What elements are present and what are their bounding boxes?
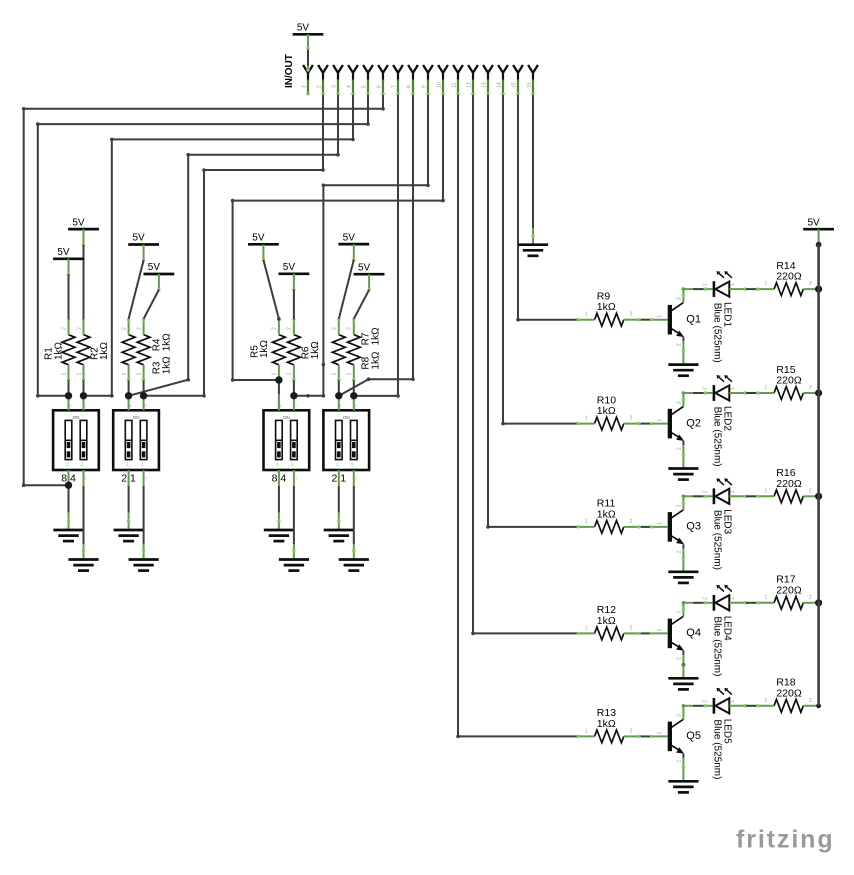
svg-text:2: 2 [703,387,709,390]
svg-text:2: 2 [809,281,812,287]
svg-text:Q3: Q3 [686,521,701,533]
svg-text:2: 2 [287,327,293,330]
svg-text:3: 3 [677,504,683,507]
svg-text:5V: 5V [807,217,820,228]
svg-text:5V: 5V [132,233,145,244]
svg-text:1: 1 [76,373,82,376]
svg-text:2: 2 [76,327,82,330]
svg-text:1: 1 [765,595,768,601]
svg-text:5V: 5V [283,262,296,273]
svg-text:220Ω: 220Ω [776,375,802,387]
svg-text:3: 3 [677,714,683,717]
svg-text:6: 6 [376,85,382,88]
svg-text:5V: 5V [252,233,265,244]
svg-text:1: 1 [730,700,736,703]
svg-text:1: 1 [765,488,768,494]
svg-text:2: 2 [121,327,127,330]
svg-text:3: 3 [331,85,337,88]
svg-text:Blue (525nm): Blue (525nm) [712,510,723,570]
svg-text:Blue (525nm): Blue (525nm) [712,719,723,779]
svg-text:220Ω: 220Ω [776,271,802,283]
svg-text:2: 2 [677,760,683,763]
svg-text:2: 2 [316,85,322,88]
svg-text:1: 1 [121,373,127,376]
svg-text:2: 2 [353,477,358,480]
svg-text:1: 1 [657,731,663,734]
svg-text:5V: 5V [148,262,161,273]
svg-text:1: 1 [61,373,67,376]
svg-text:2: 2 [677,447,683,450]
svg-text:2: 2 [809,698,812,704]
svg-text:2: 2 [142,477,147,480]
svg-text:1kΩ: 1kΩ [597,508,616,520]
svg-text:2: 2 [332,327,338,330]
svg-text:1: 1 [585,625,588,631]
svg-text:1: 1 [585,728,588,734]
svg-text:1: 1 [585,312,588,318]
svg-text:1: 1 [730,597,736,600]
svg-text:2: 2 [703,283,709,286]
svg-text:5V: 5V [72,217,85,228]
svg-text:1kΩ: 1kΩ [597,405,616,417]
svg-text:1: 1 [332,373,338,376]
svg-text:220Ω: 220Ω [776,478,802,490]
svg-text:2: 2 [677,343,683,346]
svg-text:Q2: Q2 [686,417,701,429]
svg-text:1: 1 [657,419,663,422]
svg-text:5V: 5V [57,247,70,258]
svg-text:2: 2 [809,488,812,494]
svg-text:2: 2 [272,327,278,330]
svg-text:9: 9 [421,85,427,88]
svg-text:11: 11 [451,83,457,88]
svg-text:4: 4 [346,85,352,88]
svg-text:ON: ON [73,415,80,420]
svg-text:8 4: 8 4 [272,472,287,484]
svg-text:1kΩ: 1kΩ [597,718,616,730]
svg-text:2: 2 [809,385,812,391]
svg-text:Q1: Q1 [686,314,701,326]
svg-text:5V: 5V [297,23,310,34]
svg-text:1: 1 [730,387,736,390]
svg-text:ON: ON [283,415,290,420]
svg-text:1: 1 [272,373,278,376]
svg-text:2: 2 [630,416,633,422]
svg-text:2: 2 [630,728,633,734]
svg-text:16: 16 [526,82,532,88]
svg-text:13: 13 [481,82,487,88]
svg-text:7: 7 [391,85,397,88]
svg-text:1: 1 [765,281,768,287]
svg-text:2: 2 [677,657,683,660]
svg-text:2: 2 [809,595,812,601]
svg-text:2: 2 [703,490,709,493]
svg-text:1: 1 [585,519,588,525]
svg-text:8: 8 [406,85,412,88]
svg-text:IN/OUT: IN/OUT [284,54,295,88]
svg-text:3: 3 [677,611,683,614]
svg-text:1: 1 [657,522,663,525]
svg-text:14: 14 [496,82,502,88]
svg-text:2: 2 [703,597,709,600]
svg-text:Blue (525nm): Blue (525nm) [712,616,723,676]
svg-text:2: 2 [630,312,633,318]
svg-text:1: 1 [585,416,588,422]
svg-text:2: 2 [61,327,67,330]
svg-text:fritzing: fritzing [736,826,835,854]
svg-text:5: 5 [361,85,367,88]
svg-text:220Ω: 220Ω [776,687,802,699]
svg-text:1kΩ: 1kΩ [597,615,616,627]
svg-text:2: 2 [677,550,683,553]
svg-text:5V: 5V [343,232,356,243]
svg-text:1: 1 [657,315,663,318]
svg-text:3: 3 [677,297,683,300]
svg-text:Blue (525nm): Blue (525nm) [712,303,723,363]
svg-text:2: 2 [630,625,633,631]
svg-text:2: 2 [630,519,633,525]
svg-text:5V: 5V [358,262,371,273]
svg-text:1: 1 [765,698,768,704]
svg-text:3: 3 [677,401,683,404]
svg-text:Q5: Q5 [686,730,701,742]
svg-text:Q4: Q4 [686,627,701,639]
svg-text:1: 1 [347,373,353,376]
svg-text:1kΩ: 1kΩ [597,301,616,313]
svg-text:1: 1 [287,373,293,376]
svg-text:1: 1 [301,85,307,88]
svg-text:ON: ON [133,415,140,420]
svg-text:2: 2 [293,477,298,480]
svg-text:2: 2 [347,327,353,330]
svg-text:2 1: 2 1 [331,472,346,484]
svg-text:220Ω: 220Ω [776,584,802,596]
svg-text:2: 2 [136,327,142,330]
svg-text:Blue (525nm): Blue (525nm) [712,407,723,467]
svg-text:1: 1 [136,373,142,376]
svg-text:10: 10 [436,82,442,88]
svg-text:1: 1 [765,385,768,391]
svg-text:15: 15 [511,82,517,88]
svg-text:ON: ON [343,415,350,420]
svg-text:2: 2 [703,700,709,703]
svg-text:12: 12 [466,82,472,88]
svg-text:2 1: 2 1 [121,472,136,484]
svg-text:1: 1 [657,628,663,631]
svg-text:1: 1 [730,283,736,286]
svg-text:1: 1 [730,490,736,493]
svg-text:2: 2 [82,477,87,480]
